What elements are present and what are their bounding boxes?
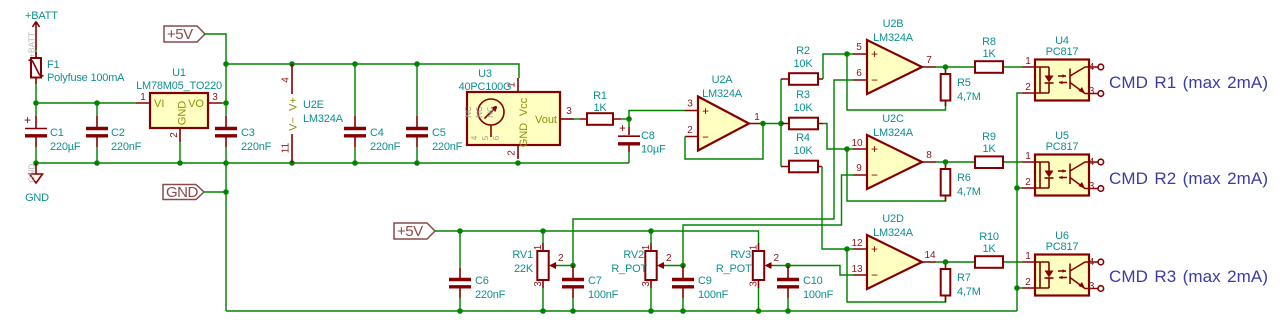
svg-text:5: 5 <box>481 135 490 140</box>
svg-text:+: + <box>871 47 878 61</box>
wire GND rail upper <box>36 162 629 164</box>
svg-text:C2: C2 <box>111 127 125 139</box>
svg-text:LM324A: LM324A <box>303 113 344 125</box>
svg-text:CMD R2 (max 2mA): CMD R2 (max 2mA) <box>1109 169 1268 188</box>
global label +5V top <box>164 26 205 43</box>
svg-text:10: 10 <box>851 138 863 149</box>
svg-text:U2D: U2D <box>882 213 904 225</box>
svg-text:R10: R10 <box>979 231 999 243</box>
svg-text:F1: F1 <box>47 59 60 71</box>
wire U2C output <box>936 161 1022 163</box>
op-amp U2C <box>851 113 936 189</box>
svg-text:3: 3 <box>212 92 218 103</box>
svg-text:CMD R3 (max 2mA): CMD R3 (max 2mA) <box>1109 267 1268 286</box>
svg-text:4: 4 <box>1089 62 1095 73</box>
capacitor C5 <box>406 64 463 163</box>
svg-text:C4: C4 <box>370 127 384 139</box>
junction +5V rail at U2E pin4 <box>289 61 295 67</box>
wire Vout to R1 <box>574 118 580 120</box>
resistor R8 <box>975 36 1003 73</box>
svg-text:4: 4 <box>470 135 479 140</box>
svg-text:C3: C3 <box>241 127 255 139</box>
svg-text:C7: C7 <box>588 275 602 287</box>
svg-text:R8: R8 <box>982 36 996 48</box>
svg-text:R7: R7 <box>957 272 971 284</box>
wire U1 pin2 to GND rail <box>179 142 181 163</box>
potentiometer RV2 <box>611 231 672 311</box>
resistor R10 <box>975 231 1003 268</box>
svg-text:10K: 10K <box>794 102 814 114</box>
svg-text:U2A: U2A <box>712 74 734 86</box>
svg-text:40PC100G: 40PC100G <box>459 81 512 93</box>
svg-text:3: 3 <box>641 281 652 287</box>
global label +5V bottom <box>394 223 435 240</box>
junction bottom rail C10 <box>785 308 791 314</box>
op-amp U2D <box>851 213 936 289</box>
junction bottom rail RV1 <box>540 308 546 314</box>
svg-text:+: + <box>871 242 878 256</box>
svg-text:NC: NC <box>475 106 484 118</box>
svg-text:V+: V+ <box>288 97 300 111</box>
junction node A (sensor RC) <box>626 116 632 122</box>
svg-text:3: 3 <box>533 281 544 287</box>
junction +5V rail2 at C6 <box>457 228 463 234</box>
svg-text:1K: 1K <box>982 243 996 255</box>
wire U5 pin2 stub <box>1017 187 1022 189</box>
resistor R1 <box>580 90 621 125</box>
svg-text:22K: 22K <box>514 263 534 275</box>
resistor R2 <box>781 45 823 85</box>
svg-text:R6: R6 <box>957 172 971 184</box>
svg-text:C9: C9 <box>698 275 712 287</box>
svg-text:U1: U1 <box>172 67 186 79</box>
wire ladder vertical <box>780 79 782 167</box>
svg-text:+5V: +5V <box>167 26 193 43</box>
svg-text:6: 6 <box>856 68 862 79</box>
wire RV2 wiper to U2C minus <box>683 175 853 266</box>
junction VIN at C1 <box>33 100 39 106</box>
junction U2B output at R5 <box>943 64 949 70</box>
junction U2D output at R7 <box>943 259 949 265</box>
svg-text:Vout: Vout <box>535 114 557 126</box>
svg-text:−: − <box>871 268 878 282</box>
svg-text:RV3: RV3 <box>730 249 751 261</box>
junction bottom rail RV2 <box>648 308 654 314</box>
svg-text:1: 1 <box>1025 251 1031 262</box>
svg-text:4: 4 <box>281 77 292 83</box>
svg-text:−: − <box>871 73 878 87</box>
svg-text:GND: GND <box>27 164 37 183</box>
wire RV3 wiper to node <box>773 265 789 267</box>
resistor R6 <box>941 162 981 201</box>
svg-text:VI: VI <box>154 98 164 110</box>
capacitor C8 <box>618 119 666 163</box>
svg-text:1: 1 <box>754 112 760 123</box>
wire RV1 wiper to node <box>557 265 573 267</box>
svg-text:+: + <box>871 142 878 156</box>
svg-text:4: 4 <box>1089 257 1095 268</box>
junction U2C output at R6 <box>943 159 949 165</box>
svg-text:+BATT: +BATT <box>27 32 37 58</box>
wire R3 to U2C plus <box>823 124 853 150</box>
junction +5V rail at C5 <box>414 61 420 67</box>
wire R1 to node A <box>621 118 629 120</box>
svg-text:RV2: RV2 <box>623 249 644 261</box>
capacitor C1 <box>24 103 81 163</box>
potentiometer RV3 <box>716 243 780 311</box>
svg-text:R5: R5 <box>957 77 971 89</box>
svg-text:C6: C6 <box>475 275 489 287</box>
wire RV1 wiper to U2B minus <box>573 80 853 266</box>
svg-text:GND: GND <box>177 101 189 126</box>
junction U2C plus node <box>844 146 850 152</box>
svg-text:2: 2 <box>687 125 693 136</box>
wire GND label to vertical <box>204 191 226 193</box>
svg-text:+5V: +5V <box>397 223 423 240</box>
svg-text:100nF: 100nF <box>698 289 729 301</box>
capacitor C3 <box>215 103 272 163</box>
svg-text:U2E: U2E <box>303 99 324 111</box>
svg-text:−: − <box>871 168 878 182</box>
svg-text:RV1: RV1 <box>512 249 533 261</box>
svg-text:C5: C5 <box>432 127 446 139</box>
svg-text:3: 3 <box>1089 281 1095 292</box>
svg-text:2: 2 <box>169 132 180 138</box>
optocoupler U6 PC817 <box>1022 230 1104 296</box>
junction bottom rail RV3 <box>756 308 762 314</box>
svg-text:1: 1 <box>1025 151 1031 162</box>
svg-text:R_POT: R_POT <box>611 263 647 275</box>
optocoupler U4 PC817 <box>1022 35 1104 101</box>
wire GND vertical x226 <box>225 163 227 311</box>
wire U2C hysteresis feedback <box>847 149 946 201</box>
svg-text:1K: 1K <box>982 48 996 60</box>
svg-text:C1: C1 <box>50 127 64 139</box>
svg-text:LM324A: LM324A <box>873 32 914 44</box>
global label GND <box>163 184 204 201</box>
capacitor C4 <box>344 64 401 163</box>
svg-text:1: 1 <box>1025 56 1031 67</box>
svg-text:13: 13 <box>851 264 863 275</box>
svg-text:8: 8 <box>926 150 932 161</box>
svg-text:4,7M: 4,7M <box>957 286 981 298</box>
svg-text:12: 12 <box>851 238 863 249</box>
wire +5V vertical to VO <box>225 64 227 103</box>
wire RV3 wiper to U2D minus <box>788 266 853 276</box>
svg-text:V−: V− <box>288 117 300 131</box>
capacitor C2 <box>86 103 142 163</box>
svg-text:LM324A: LM324A <box>873 227 914 239</box>
junction GND label tap <box>223 189 229 195</box>
svg-text:2: 2 <box>666 253 672 264</box>
svg-text:R_POT: R_POT <box>716 263 752 275</box>
junction GND rail at C2 <box>94 160 100 166</box>
junction GND rail at U2E pin11 <box>289 160 295 166</box>
junction ladder tap <box>778 121 784 127</box>
svg-text:LM324A: LM324A <box>873 127 914 139</box>
svg-text:14: 14 <box>924 250 936 261</box>
wire U2D hysteresis feedback <box>847 249 946 302</box>
svg-text:NC: NC <box>486 106 495 118</box>
pressure sensor U3 40PC100G <box>459 68 574 159</box>
svg-text:2: 2 <box>507 150 518 156</box>
capacitor C6 <box>449 231 506 311</box>
junction RV2 wiper node <box>680 263 686 269</box>
svg-text:3: 3 <box>1089 86 1095 97</box>
svg-text:3: 3 <box>749 281 760 287</box>
ground symbol left <box>25 163 49 204</box>
svg-text:3: 3 <box>1089 181 1095 192</box>
junction GND rail at U3 pin2 <box>515 160 521 166</box>
junction VO node <box>223 100 229 106</box>
svg-text:2: 2 <box>558 253 564 264</box>
wire U2B output <box>936 66 1022 68</box>
svg-text:220nF: 220nF <box>370 141 401 153</box>
svg-text:7: 7 <box>926 55 932 66</box>
wire node A to U2A plus input <box>629 111 685 120</box>
svg-text:10K: 10K <box>794 58 814 70</box>
svg-text:2: 2 <box>1025 82 1031 93</box>
resistor R4 <box>781 132 822 172</box>
svg-text:PC817: PC817 <box>1046 46 1079 58</box>
junction cathode bus U5 <box>1014 185 1020 191</box>
wire RV2 wiper to node <box>665 265 683 267</box>
svg-text:220nF: 220nF <box>111 141 142 153</box>
resistor R9 <box>975 131 1003 168</box>
svg-text:9: 9 <box>856 163 862 174</box>
junction +5V rail2 at RV2 <box>648 228 654 234</box>
junction bottom rail C9 <box>680 308 686 314</box>
wire U6 pin2 stub <box>1017 287 1022 289</box>
svg-text:Vcc: Vcc <box>518 97 530 116</box>
op-amp U2A <box>685 74 763 151</box>
resistor R7 <box>941 262 981 302</box>
svg-text:+: + <box>24 113 31 127</box>
junction bottom rail C6 <box>457 308 463 314</box>
svg-text:C10: C10 <box>803 275 823 287</box>
svg-text:4,7M: 4,7M <box>957 91 981 103</box>
svg-text:2: 2 <box>774 253 780 264</box>
svg-text:220µF: 220µF <box>50 141 81 153</box>
svg-text:PC817: PC817 <box>1046 241 1079 253</box>
svg-text:U2C: U2C <box>882 113 904 125</box>
svg-text:2: 2 <box>1025 277 1031 288</box>
svg-text:LM324A: LM324A <box>702 88 743 100</box>
svg-text:VO: VO <box>188 98 204 110</box>
svg-text:5: 5 <box>856 42 862 53</box>
svg-text:3: 3 <box>687 99 693 110</box>
wire U2D output <box>936 261 1022 263</box>
power flag +BATT <box>25 10 58 58</box>
svg-text:+BATT: +BATT <box>25 10 58 22</box>
wire U2A output to ladder <box>763 123 781 125</box>
regulator U1 LM78M05_TO220 <box>136 67 222 142</box>
svg-text:GND: GND <box>518 123 530 148</box>
optocoupler U5 PC817 <box>1022 130 1104 196</box>
resistor R5 <box>941 67 981 106</box>
wire VO to vertical <box>222 102 226 104</box>
resistor R3 <box>781 89 823 129</box>
svg-text:10K: 10K <box>794 145 814 157</box>
junction VIN at C2 <box>94 100 100 106</box>
svg-text:11: 11 <box>281 142 292 153</box>
svg-text:Polyfuse 100mA: Polyfuse 100mA <box>47 72 125 84</box>
junction +5V rail2 at RV1 <box>540 228 546 234</box>
junction U2A output <box>760 121 766 127</box>
capacitor C9 <box>672 266 729 312</box>
junction U2D plus node <box>844 246 850 252</box>
wire U2A feedback loop <box>685 124 763 160</box>
fuse F1 <box>29 52 126 84</box>
svg-text:U2B: U2B <box>883 18 904 30</box>
capacitor C7 <box>562 266 619 312</box>
junction GND rail at C4 <box>352 160 358 166</box>
svg-text:1: 1 <box>533 244 544 250</box>
svg-text:U3: U3 <box>478 68 492 80</box>
junction bottom rail C7 <box>570 308 576 314</box>
svg-text:220nF: 220nF <box>475 289 506 301</box>
svg-text:CMD R1 (max 2mA): CMD R1 (max 2mA) <box>1109 73 1268 92</box>
svg-text:220nF: 220nF <box>241 141 272 153</box>
op-amp U2E power unit <box>281 64 344 163</box>
svg-text:100nF: 100nF <box>803 289 834 301</box>
wire U2B hysteresis feedback <box>847 54 946 110</box>
svg-text:R4: R4 <box>796 132 810 144</box>
svg-text:R2: R2 <box>796 45 810 57</box>
svg-text:PC817: PC817 <box>1046 141 1079 153</box>
svg-text:4: 4 <box>1089 157 1095 168</box>
junction GND rail at C5 <box>414 160 420 166</box>
svg-text:NC: NC <box>464 106 473 118</box>
svg-text:GND: GND <box>25 192 49 204</box>
svg-text:R1: R1 <box>593 90 607 102</box>
svg-text:−: − <box>702 130 709 144</box>
junction RV3 wiper node <box>785 263 791 269</box>
wire VIN net: fuse to C1 C2 U1 <box>36 84 136 103</box>
wire +BATT to F1 <box>35 50 37 58</box>
wire +5V label to rail <box>204 34 226 64</box>
wire R2 to U2B plus <box>823 54 853 79</box>
wire GND bottom rail <box>226 310 1017 312</box>
svg-text:100nF: 100nF <box>588 289 619 301</box>
wire R4 to U2D plus <box>822 167 853 250</box>
svg-text:+: + <box>702 104 709 118</box>
junction U2B plus node <box>844 51 850 57</box>
svg-text:3: 3 <box>566 106 572 117</box>
junction GND rail at C1 <box>33 160 39 166</box>
svg-text:6: 6 <box>492 135 501 140</box>
svg-text:R9: R9 <box>982 131 996 143</box>
junction RV1 wiper node <box>570 263 576 269</box>
op-amp U2B <box>853 18 936 94</box>
svg-text:1: 1 <box>140 92 146 103</box>
junction +5V rail at x226 <box>223 61 229 67</box>
svg-text:220nF: 220nF <box>432 141 463 153</box>
wire +5V top rail <box>226 64 519 78</box>
svg-text:10µF: 10µF <box>641 144 666 156</box>
junction GND rail at U1 pin2 <box>177 160 183 166</box>
junction +5V rail at C4 <box>352 61 358 67</box>
junction cathode bus U6 <box>1014 285 1020 291</box>
svg-text:4,7M: 4,7M <box>957 186 981 198</box>
svg-text:C8: C8 <box>641 130 655 142</box>
svg-text:LM78M05_TO220: LM78M05_TO220 <box>136 80 222 92</box>
wire +5V bottom rail <box>435 231 759 243</box>
junction GND rail at C3 <box>223 160 229 166</box>
wire opto cathode bus <box>1017 93 1022 311</box>
svg-text:R3: R3 <box>796 89 810 101</box>
potentiometer RV1 <box>512 231 564 311</box>
svg-text:+: + <box>619 121 626 135</box>
svg-text:1K: 1K <box>593 102 607 114</box>
svg-text:GND: GND <box>166 184 199 201</box>
svg-text:1K: 1K <box>982 143 996 155</box>
svg-text:2: 2 <box>1025 177 1031 188</box>
capacitor C10 <box>777 266 834 312</box>
